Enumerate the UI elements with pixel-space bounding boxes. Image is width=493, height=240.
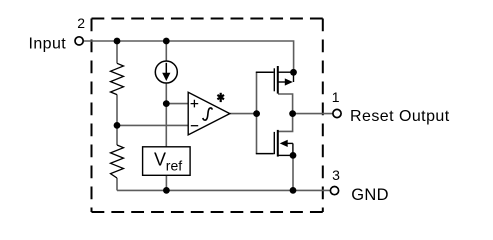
svg-text:ref: ref: [166, 157, 182, 173]
pin 1 terminal circle (Reset Output): [333, 109, 341, 117]
junction dot: output node: [289, 110, 296, 117]
dashed IC boundary box: [92, 19, 323, 213]
pin 3 terminal circle (GND): [330, 187, 338, 195]
transistor Q2 NMOS channel bar: [277, 130, 279, 157]
wire: gate bus vertical: [256, 72, 258, 153]
wire: comparator minus input from divider node: [117, 124, 188, 126]
transistor Q2 NMOS body stub with arrow: [280, 140, 288, 147]
transistor Q2 NMOS body tie to source: [292, 143, 294, 155]
transistor Q1 PMOS gate lead: [256, 71, 274, 73]
svg-text:V: V: [154, 150, 166, 170]
junction dot: Vref / ground rail: [163, 187, 170, 194]
svg-text:2: 2: [77, 15, 85, 31]
junction dot: rail / current source top: [163, 38, 170, 45]
wire: output node to Reset Output pin: [293, 113, 333, 115]
wire: comparator output to gate bus: [230, 113, 257, 115]
svg-text:1: 1: [332, 89, 340, 105]
wire: PMOS drain route to output node: [278, 94, 293, 114]
junction dot: NMOS source / body: [290, 152, 297, 159]
wire: input top rail from Input pin across to supply drop at right: [84, 41, 294, 69]
junction dot: node A (plus input): [163, 100, 170, 107]
asterisk annotation: [217, 93, 224, 102]
wire: resistor R1 bottom lead to divider node: [116, 95, 118, 126]
wire: resistor R2 bottom lead to ground rail: [116, 178, 118, 190]
op-amp comparator U1 triangle: [188, 92, 230, 135]
comparator minus sign: [191, 125, 198, 127]
wire: node A down to Vref box: [165, 104, 167, 147]
svg-text:Reset Output: Reset Output: [350, 108, 450, 125]
transistor Q2 NMOS source stub: [278, 154, 293, 156]
wire: comparator plus input: [166, 103, 188, 105]
svg-text:GND: GND: [351, 186, 389, 204]
wire: NMOS drain route to output node: [278, 114, 293, 132]
svg-text:3: 3: [332, 167, 340, 183]
junction dot: comparator output / gate bus: [253, 110, 260, 117]
wire: current source bottom lead to node A: [165, 83, 167, 103]
wire: resistor R1 top lead: [116, 41, 118, 63]
transistor Q2 NMOS gate bar: [273, 132, 275, 154]
junction dot: divider node (minus input): [114, 122, 121, 129]
wire: current source top lead: [165, 41, 167, 61]
wire: ground rail: [117, 189, 330, 191]
transistor Q1 PMOS source stub: [278, 71, 294, 73]
svg-text:Input: Input: [29, 36, 67, 53]
wire: Vref bottom lead: [165, 175, 167, 190]
comparator plus sign: [191, 100, 199, 108]
junction dot: PMOS source / supply: [290, 69, 297, 76]
resistor R1 (upper divider resistor): [111, 63, 124, 94]
transistor Q1 PMOS channel bar: [277, 66, 279, 94]
transistor Q1 PMOS body tie to source: [293, 72, 295, 82]
transistor Q1 PMOS gate bar: [273, 68, 275, 91]
junction dot: NMOS source / ground rail: [290, 187, 297, 194]
wire: NMOS source down to ground rail: [292, 155, 294, 190]
transistor Q1 PMOS body stub with arrow: [278, 81, 286, 83]
resistor R2 (lower divider resistor): [111, 145, 124, 178]
current source I1 arrow: [165, 63, 167, 74]
current source I1 circle: [155, 61, 177, 83]
junction dot: rail / R1 top: [114, 38, 121, 45]
Vref box: [143, 147, 191, 176]
transistor Q2 NMOS gate lead: [256, 153, 274, 155]
pin 2 terminal circle (Input): [75, 37, 83, 45]
wire: resistor R2 top lead: [116, 125, 118, 145]
comparator hysteresis symbol: [203, 108, 213, 120]
